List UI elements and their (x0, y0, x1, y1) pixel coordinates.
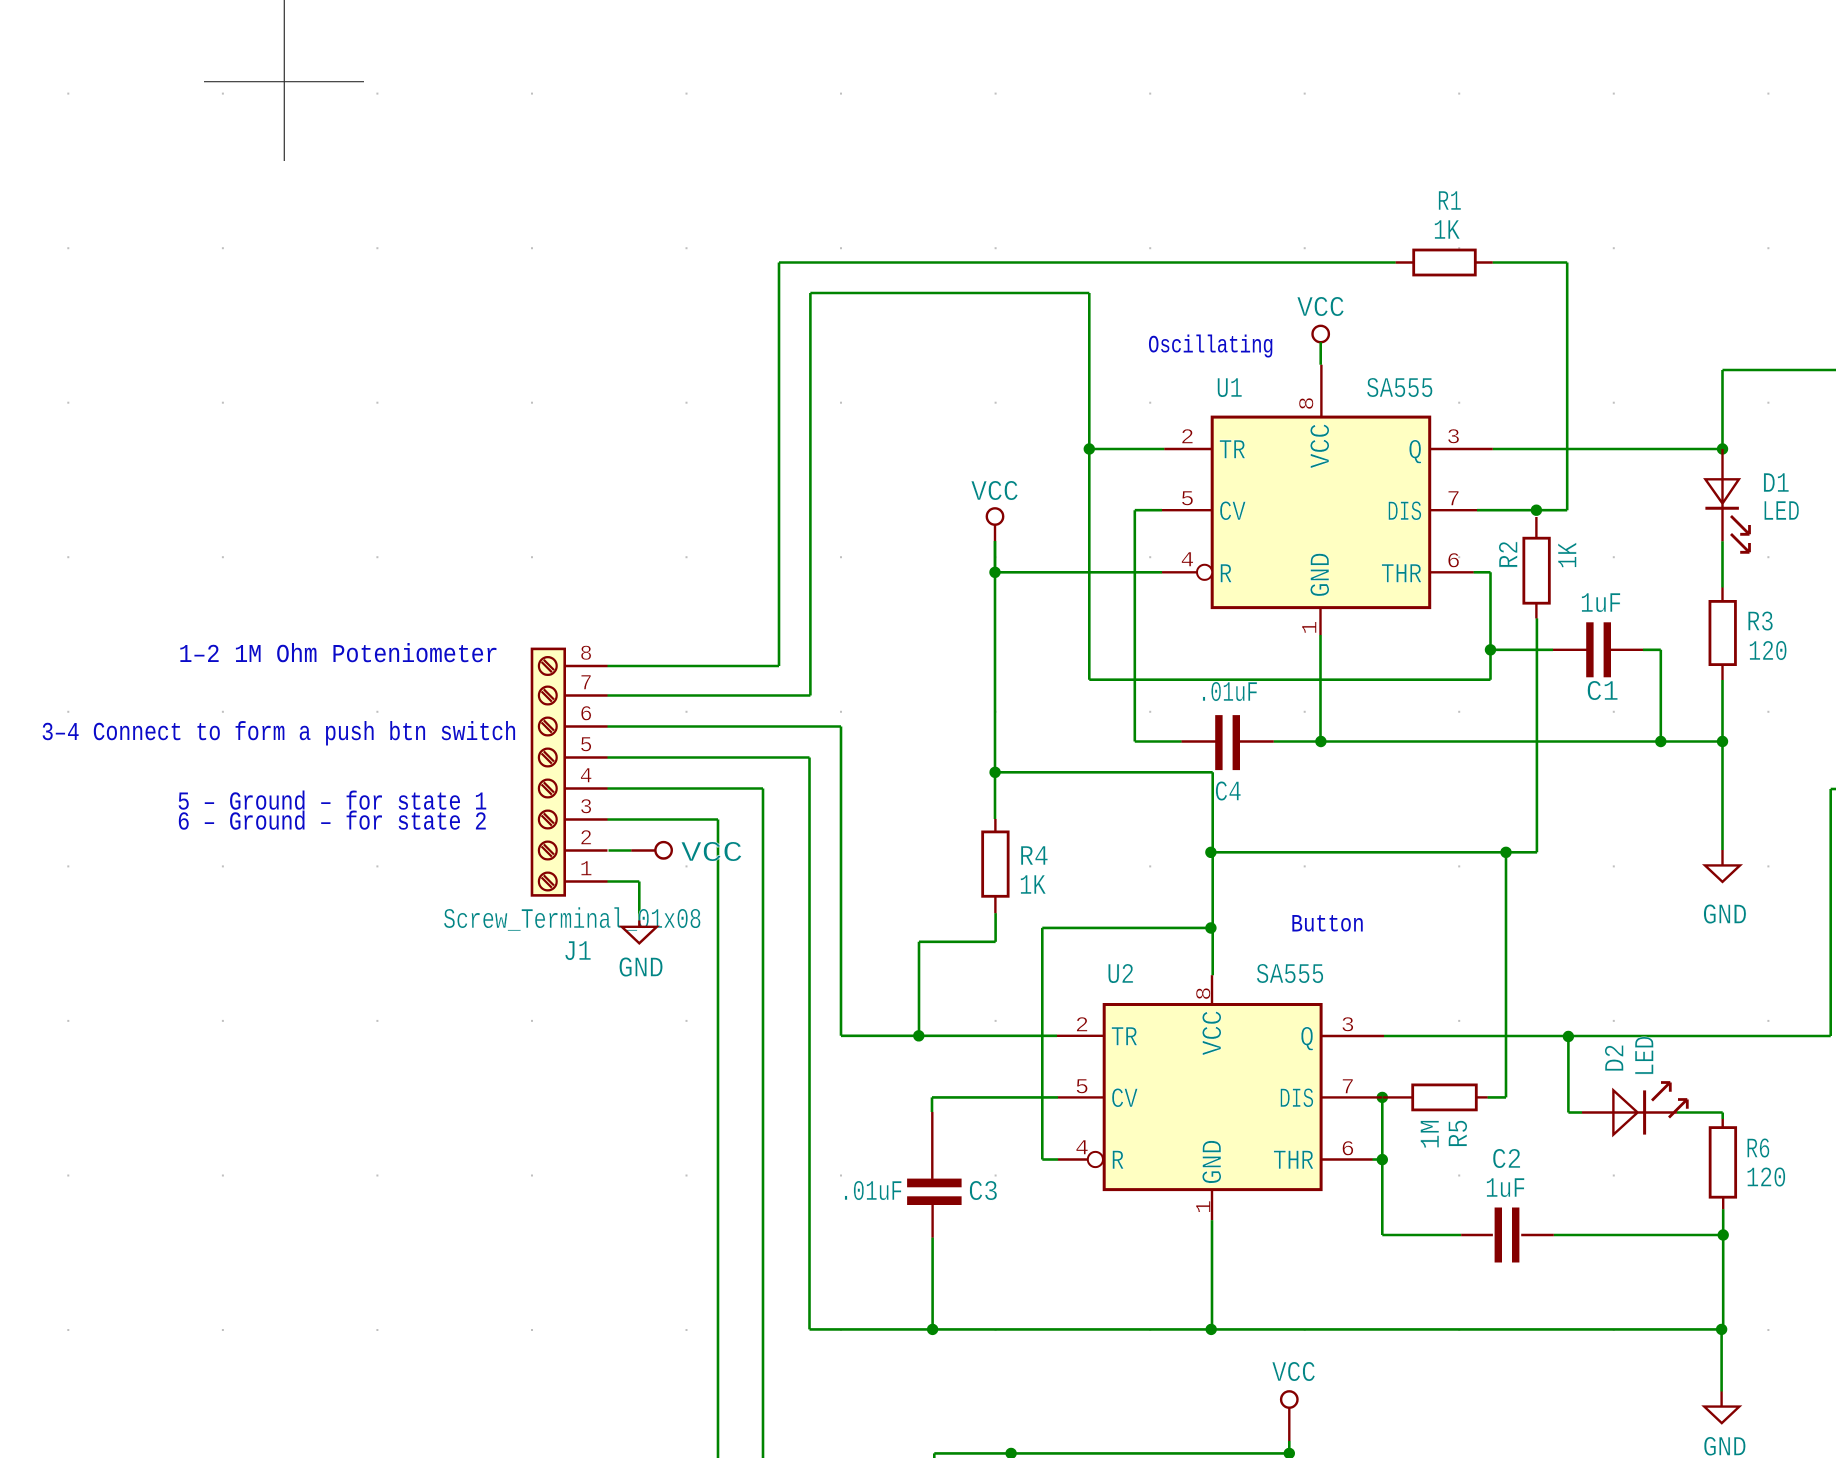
junction (1563, 1031, 1574, 1042)
J1 screw terminal pin 4 (539, 780, 557, 798)
svg-text:R3: R3 (1747, 607, 1775, 640)
svg-text:7: 7 (580, 672, 593, 697)
wire CV-U1 to C4 (1135, 509, 1162, 512)
svg-text:GND: GND (1307, 552, 1338, 597)
wire D1 cathode to R3 (1721, 541, 1724, 587)
svg-text:GND: GND (1199, 1139, 1230, 1184)
svg-text:1: 1 (580, 858, 593, 883)
wire J1 pin5 to lower bus (608, 756, 810, 759)
wire R-U2 riser (1042, 927, 1211, 930)
wire R2 bottom run (1536, 618, 1539, 852)
svg-text:4: 4 (1075, 1137, 1089, 1162)
capacitor C4 .01uF (1182, 740, 1216, 742)
ground symbol right lower (1720, 1392, 1722, 1407)
svg-text:2: 2 (1180, 425, 1194, 450)
svg-text:R5: R5 (1445, 1119, 1476, 1148)
resistor R2 1K (1535, 517, 1537, 538)
op-amp U1 SA555 timer body (1212, 417, 1430, 607)
svg-text:1K: 1K (1555, 542, 1586, 569)
svg-text:GND: GND (1703, 1433, 1747, 1458)
svg-text:CV: CV (1219, 498, 1246, 529)
svg-text:2: 2 (1075, 1013, 1089, 1038)
wire J1 pin7 (608, 694, 811, 697)
svg-text:5: 5 (580, 734, 593, 759)
U2 pin 1 GND (1211, 1190, 1213, 1221)
U2 pin 3 Q (1321, 1035, 1384, 1037)
svg-text:5: 5 (1180, 488, 1194, 513)
svg-text:Q: Q (1408, 437, 1422, 468)
svg-text:1uF: 1uF (1580, 588, 1622, 621)
svg-text:R: R (1111, 1147, 1125, 1178)
wire U2 GND pin to bus (1211, 1220, 1214, 1329)
capacitor C1 1uF (1553, 649, 1587, 651)
connector J1 screw terminal body (532, 649, 565, 896)
wire bus to GND bottom-right (1720, 1329, 1723, 1391)
wire R1 left to J1 pin8 riser (779, 261, 1396, 264)
wire DIS-U1 to R2 top (1477, 509, 1567, 512)
svg-text:R2: R2 (1496, 540, 1527, 569)
wire C1 left stub net (1491, 648, 1554, 651)
resistor R4 1K (994, 819, 996, 832)
wire bottom rail (934, 1452, 1289, 1455)
VCC symbol bottom (1281, 1391, 1297, 1407)
junction (1531, 505, 1542, 516)
svg-text:1: 1 (1299, 621, 1324, 635)
junction (913, 1030, 924, 1041)
resistor R6 120 (1721, 1119, 1723, 1128)
U1 pin 4 R inverted (1162, 571, 1197, 573)
svg-text:7: 7 (1447, 488, 1461, 513)
svg-text:C1: C1 (1586, 676, 1619, 709)
wire Q-U2 run to right edge (1384, 1035, 1831, 1038)
wire J1 pin3 down (608, 818, 719, 821)
J1 screw terminal pin 6 (539, 718, 557, 736)
U1 pin 3 Q (1430, 448, 1493, 450)
wire R6 bottom (1722, 1209, 1725, 1235)
svg-text:Oscillating: Oscillating (1148, 332, 1274, 361)
svg-text:.01uF: .01uF (1198, 677, 1258, 710)
wire THR-U1 horizontal run (1089, 678, 1490, 681)
junction (1500, 847, 1511, 858)
wire J1 pin7 riser to THR-U1 path (810, 292, 1089, 295)
svg-text:GND: GND (1702, 900, 1747, 933)
svg-text:6 – Ground – for state 2: 6 – Ground – for state 2 (177, 808, 487, 838)
junction (1284, 1448, 1295, 1459)
svg-text:R: R (1219, 561, 1233, 592)
svg-text:.01uF: .01uF (840, 1176, 903, 1209)
wire VCC to U2-VCC riser (995, 771, 1213, 774)
junction (1716, 1324, 1727, 1335)
U2 pin 6 THR (1321, 1158, 1372, 1160)
U2 pin 7 DIS (1321, 1096, 1382, 1098)
svg-text:VCC: VCC (971, 476, 1019, 509)
svg-text:DIS: DIS (1279, 1085, 1314, 1116)
svg-text:U2: U2 (1107, 959, 1135, 992)
svg-text:SA555: SA555 (1366, 373, 1434, 406)
svg-text:1–2 1M Ohm Poteniometer: 1–2 1M Ohm Poteniometer (179, 640, 499, 670)
ground symbol right upper (1721, 850, 1723, 865)
svg-text:5: 5 (1075, 1076, 1089, 1101)
svg-text:C4: C4 (1215, 776, 1242, 809)
svg-text:THR: THR (1381, 561, 1422, 592)
wire R1 right to DIS-U1 riser (1493, 261, 1568, 264)
svg-text:1K: 1K (1019, 870, 1046, 903)
svg-text:1uF: 1uF (1485, 1173, 1526, 1206)
resistor R5 1M (1383, 1096, 1413, 1098)
U2 pin 2 TR (1057, 1035, 1104, 1037)
resistor R3 120 (1721, 588, 1723, 602)
svg-text:D2: D2 (1602, 1044, 1633, 1073)
svg-text:3: 3 (1341, 1013, 1355, 1038)
svg-text:VCC: VCC (1297, 292, 1345, 325)
svg-text:R6: R6 (1746, 1134, 1771, 1167)
wire top right to D1 anode (1723, 369, 1836, 372)
wire U1 GND pin to bus (1319, 635, 1322, 742)
wire TR-U1 (1089, 448, 1164, 451)
page origin crosshair (204, 0, 364, 161)
wire node to R5 riser (1505, 852, 1508, 1097)
svg-text:4: 4 (1180, 549, 1194, 574)
junction (1717, 736, 1728, 747)
junction (1315, 736, 1326, 747)
wire J1 pin4 down (608, 787, 764, 790)
junction (989, 767, 1000, 778)
junction (1717, 443, 1728, 454)
wire C3 bottom to bus (931, 1238, 934, 1330)
capacitor C3 .01uF (931, 1112, 933, 1179)
svg-text:3: 3 (580, 796, 593, 821)
capacitor C2 1uF (1461, 1234, 1493, 1236)
wire D2 anode riser (1567, 1036, 1570, 1113)
wire C2 right to R6 bottom (1554, 1234, 1723, 1237)
wire VCC mid stub (994, 541, 997, 572)
wire bus to GND top-right (1721, 742, 1724, 851)
junction (1718, 1229, 1729, 1240)
U2 pin 5 CV (1058, 1096, 1104, 1098)
VCC symbol at J1 pin 2 (655, 842, 671, 858)
wire R4 bottom to TR-U2 (994, 913, 997, 942)
svg-text:3: 3 (1447, 425, 1461, 450)
wire THR-U2 stub link (1373, 1158, 1383, 1161)
wire Q-U1 to D1 (1493, 448, 1723, 451)
wire J1 pin1 to GND (608, 880, 640, 883)
svg-text:VCC: VCC (1272, 1357, 1316, 1390)
junction (1377, 1092, 1388, 1103)
U2 pin 8 VCC (1211, 975, 1213, 1004)
svg-text:VCC: VCC (1307, 423, 1338, 468)
wire C1 right to gnd bus (1643, 648, 1661, 651)
wire R-U1 to VCC net (995, 571, 1162, 574)
wire CV-U2 to C3 (932, 1096, 1058, 1099)
junction (1005, 1448, 1016, 1459)
wire D2 cathode to R6 (1677, 1111, 1723, 1114)
svg-text:C3: C3 (968, 1176, 999, 1209)
svg-text:TR: TR (1219, 437, 1246, 468)
wire TR-U2 (841, 1035, 1057, 1038)
J1 screw terminal pin 3 (539, 811, 557, 829)
svg-text:1M: 1M (1417, 1119, 1448, 1149)
svg-text:7: 7 (1341, 1076, 1355, 1101)
VCC symbol at U1 pin 8 (1313, 326, 1329, 342)
junction (927, 1324, 938, 1335)
svg-text:1K: 1K (1433, 215, 1460, 248)
svg-text:Button: Button (1291, 910, 1365, 939)
wire R6/C2 node to lower bus (1722, 1235, 1725, 1329)
svg-text:120: 120 (1746, 1163, 1787, 1196)
junction (1084, 443, 1095, 454)
svg-text:LED: LED (1632, 1036, 1663, 1077)
svg-text:8: 8 (580, 642, 593, 667)
wire J1 pin8 (608, 665, 780, 668)
svg-text:8: 8 (1295, 396, 1320, 410)
svg-text:U1: U1 (1216, 373, 1243, 406)
junction (1205, 922, 1216, 933)
wire R3 bottom to bus (1721, 680, 1724, 742)
wire ground bus upper (1274, 740, 1723, 743)
svg-text:120: 120 (1748, 636, 1788, 669)
J1 screw terminal pin 2 (539, 842, 557, 860)
svg-text:THR: THR (1273, 1147, 1314, 1178)
svg-text:J1: J1 (563, 936, 592, 969)
svg-text:VCC: VCC (1199, 1010, 1230, 1055)
U1 pin 2 TR (1164, 448, 1212, 450)
svg-text:6: 6 (580, 703, 593, 728)
svg-text:LED: LED (1762, 496, 1800, 529)
junction (1377, 1154, 1388, 1165)
svg-text:2: 2 (580, 827, 593, 852)
junction (989, 567, 1000, 578)
junction (1205, 847, 1216, 858)
junction (1206, 1324, 1217, 1335)
wire J1 pin2 to VCC (609, 849, 632, 852)
U1 pin 1 GND (1319, 608, 1321, 635)
svg-text:VCC: VCC (681, 837, 743, 870)
J1 screw terminal pin 5 (539, 749, 557, 767)
svg-text:SA555: SA555 (1256, 959, 1325, 992)
wire VCC bottom stub (1288, 1441, 1291, 1453)
junction (1655, 736, 1666, 747)
LED D1 (1721, 449, 1723, 509)
svg-text:6: 6 (1341, 1138, 1355, 1163)
VCC symbol mid left (987, 508, 1003, 524)
op-amp U2 SA555 timer body (1104, 1005, 1321, 1190)
wire lower ground bus (810, 1328, 1722, 1331)
wire THR-U1 down to C1 node (1474, 571, 1491, 574)
LED D2 (1582, 1111, 1645, 1113)
wire DIS-THR-U2 link (1381, 1097, 1384, 1235)
junction (1485, 644, 1496, 655)
svg-text:Screw_Terminal_01x08: Screw_Terminal_01x08 (443, 904, 702, 937)
J1 screw terminal pin 8 (539, 657, 557, 675)
J1 screw terminal pin 1 (539, 873, 557, 891)
svg-text:6: 6 (1447, 550, 1461, 575)
svg-text:3–4 Connect to form a push btn: 3–4 Connect to form a push btn switch (41, 718, 517, 748)
U1 pin 8 VCC (1320, 365, 1322, 417)
svg-text:Q: Q (1300, 1023, 1314, 1054)
svg-text:TR: TR (1111, 1023, 1138, 1054)
svg-text:8: 8 (1193, 987, 1218, 1001)
svg-text:GND: GND (618, 953, 664, 986)
svg-text:CV: CV (1111, 1085, 1138, 1116)
wire C2 left (1382, 1234, 1461, 1237)
wire J1 pin6 to TR-U2 (608, 725, 842, 728)
svg-text:4: 4 (580, 765, 593, 790)
U1 pin 6 THR (1430, 571, 1474, 573)
U1 pin 5 CV (1162, 509, 1212, 511)
ground symbol at J1 (638, 921, 640, 927)
svg-text:DIS: DIS (1387, 498, 1422, 529)
resistor R1 1K (1396, 261, 1414, 263)
svg-text:1: 1 (1193, 1200, 1218, 1214)
U1 pin 7 DIS (1430, 509, 1477, 511)
J1 screw terminal pin 7 (539, 687, 557, 705)
U2 pin 4 R inverted (1058, 1158, 1088, 1160)
